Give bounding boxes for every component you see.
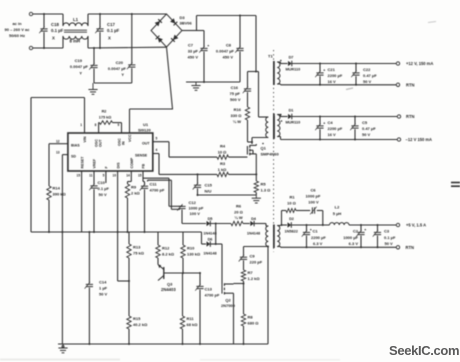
svg-text:F: F bbox=[105, 166, 109, 169]
svg-text:450 V: 450 V bbox=[188, 55, 199, 60]
svg-text:16 V: 16 V bbox=[328, 132, 337, 137]
svg-text:Y: Y bbox=[121, 72, 124, 77]
svg-text:5: 5 bbox=[103, 174, 105, 178]
svg-text:50 V: 50 V bbox=[385, 241, 394, 246]
svg-text:1000 pF: 1000 pF bbox=[189, 206, 204, 211]
svg-text:C16: C16 bbox=[231, 85, 239, 90]
svg-text:90 – 260 V ac: 90 – 260 V ac bbox=[5, 27, 31, 32]
svg-text:Q3: Q3 bbox=[167, 282, 173, 287]
svg-text:RESET: RESET bbox=[80, 156, 84, 169]
svg-text:R3: R3 bbox=[220, 161, 226, 166]
svg-text:IN: IN bbox=[121, 141, 125, 145]
svg-text:C6: C6 bbox=[310, 188, 316, 193]
svg-text:SMP4N60: SMP4N60 bbox=[261, 152, 280, 157]
svg-text:1.2 kΩ: 1.2 kΩ bbox=[248, 276, 261, 281]
svg-text:Q2: Q2 bbox=[225, 298, 231, 303]
svg-text:5: 5 bbox=[156, 137, 158, 141]
svg-text:+: + bbox=[364, 228, 366, 232]
svg-text:0.1 µF: 0.1 µF bbox=[51, 28, 64, 33]
svg-text:D1: D1 bbox=[289, 109, 294, 113]
svg-text:C9: C9 bbox=[250, 254, 256, 259]
svg-text:C22: C22 bbox=[363, 67, 371, 72]
svg-text:15: 15 bbox=[138, 174, 142, 178]
svg-text:Q1: Q1 bbox=[261, 146, 267, 151]
svg-text:0.0047 µF: 0.0047 µF bbox=[108, 66, 127, 71]
svg-text:C15: C15 bbox=[205, 183, 213, 188]
svg-text:C5: C5 bbox=[362, 120, 368, 125]
svg-text:R15: R15 bbox=[133, 316, 141, 321]
svg-text:D2: D2 bbox=[289, 217, 294, 221]
svg-text:10 Ω: 10 Ω bbox=[218, 150, 228, 155]
svg-text:11: 11 bbox=[89, 174, 93, 178]
svg-text:500 V: 500 V bbox=[230, 97, 241, 102]
svg-text:9: 9 bbox=[118, 123, 120, 127]
svg-text:4700 pF: 4700 pF bbox=[205, 293, 220, 298]
svg-text:50 V: 50 V bbox=[363, 79, 372, 84]
svg-text:20 Ω: 20 Ω bbox=[234, 210, 244, 215]
svg-text:C21: C21 bbox=[328, 67, 336, 72]
svg-text:ac in: ac in bbox=[12, 21, 22, 26]
svg-text:+: + bbox=[310, 228, 312, 232]
svg-text:1.3 Ω: 1.3 Ω bbox=[261, 188, 272, 193]
svg-text:SD: SD bbox=[71, 155, 76, 159]
svg-text:T1: T1 bbox=[268, 54, 273, 59]
svg-text:0.1 µF: 0.1 µF bbox=[384, 235, 396, 240]
svg-text:50 V: 50 V bbox=[99, 192, 108, 197]
svg-text:0.0047 µF: 0.0047 µF bbox=[70, 64, 89, 69]
svg-text:VREF: VREF bbox=[93, 158, 97, 168]
svg-text:1 kΩ: 1 kΩ bbox=[218, 167, 228, 172]
svg-text:MUR110: MUR110 bbox=[286, 68, 301, 72]
svg-text:FB: FB bbox=[142, 163, 146, 168]
svg-text:330 Ω: 330 Ω bbox=[231, 113, 243, 118]
svg-text:R6: R6 bbox=[236, 204, 242, 209]
svg-text:C17: C17 bbox=[107, 22, 115, 27]
svg-text:N/U: N/U bbox=[205, 189, 212, 194]
svg-text:R2: R2 bbox=[102, 110, 107, 114]
svg-text:4: 4 bbox=[156, 148, 158, 152]
svg-text:1 µF: 1 µF bbox=[99, 286, 108, 291]
svg-text:Y: Y bbox=[79, 71, 82, 76]
svg-text:C14: C14 bbox=[99, 280, 107, 285]
svg-text:RTN: RTN bbox=[406, 114, 414, 119]
svg-text:OUT: OUT bbox=[142, 142, 150, 146]
svg-text:D5: D5 bbox=[208, 217, 213, 221]
svg-text:RTN: RTN bbox=[406, 82, 414, 87]
svg-text:10: 10 bbox=[113, 174, 117, 178]
svg-text:1N5822: 1N5822 bbox=[285, 230, 298, 234]
svg-text:33 µF: 33 µF bbox=[188, 49, 199, 54]
svg-text:C12: C12 bbox=[189, 200, 197, 205]
svg-text:0.47 µF: 0.47 µF bbox=[363, 73, 377, 78]
svg-text:1N4148: 1N4148 bbox=[203, 252, 216, 256]
svg-text:DIS: DIS bbox=[116, 162, 120, 169]
svg-text:75 pF: 75 pF bbox=[230, 91, 241, 96]
svg-text:2200 µF: 2200 µF bbox=[311, 235, 326, 240]
svg-text:0.47 µF: 0.47 µF bbox=[362, 126, 376, 131]
svg-text:+: + bbox=[323, 121, 325, 125]
svg-text:R10: R10 bbox=[187, 246, 195, 251]
svg-text:C18: C18 bbox=[51, 22, 59, 27]
svg-text:0.0047 µF: 0.0047 µF bbox=[216, 49, 235, 54]
svg-text:+12 V, 150 mA: +12 V, 150 mA bbox=[406, 61, 433, 66]
svg-text:C4: C4 bbox=[328, 120, 334, 125]
svg-text:+5 V, 1.5 A: +5 V, 1.5 A bbox=[406, 223, 426, 228]
svg-text:MUR110: MUR110 bbox=[286, 121, 301, 125]
svg-text:C11: C11 bbox=[150, 182, 158, 187]
svg-text:R7: R7 bbox=[248, 270, 254, 275]
svg-text:C3: C3 bbox=[384, 229, 390, 234]
svg-text:C8: C8 bbox=[226, 43, 232, 48]
svg-text:4700 pF: 4700 pF bbox=[150, 188, 165, 193]
svg-text:R14: R14 bbox=[53, 186, 61, 191]
svg-text:1000 pF: 1000 pF bbox=[306, 194, 321, 199]
svg-text:2200 µF: 2200 µF bbox=[328, 73, 343, 78]
svg-text:+: + bbox=[323, 68, 325, 72]
svg-text:8: 8 bbox=[95, 123, 97, 127]
svg-text:R13: R13 bbox=[133, 245, 141, 250]
svg-text:175 kΩ: 175 kΩ bbox=[99, 115, 112, 119]
svg-text:R11: R11 bbox=[187, 316, 195, 321]
svg-text:−12 V 150 mA: −12 V 150 mA bbox=[406, 137, 433, 142]
svg-text:R16: R16 bbox=[234, 107, 242, 112]
svg-text:50 V: 50 V bbox=[362, 132, 371, 137]
svg-text:2 kΩ: 2 kΩ bbox=[131, 191, 141, 196]
svg-text:50 V: 50 V bbox=[99, 292, 108, 297]
svg-text:L1: L1 bbox=[73, 17, 79, 22]
svg-text:40.2 kΩ: 40.2 kΩ bbox=[133, 322, 148, 327]
svg-text:D4: D4 bbox=[251, 217, 257, 221]
svg-text:8 mH: 8 mH bbox=[70, 39, 81, 44]
svg-text:¼ W: ¼ W bbox=[234, 215, 242, 220]
svg-text:R4: R4 bbox=[220, 144, 226, 149]
svg-text:1000 µF: 1000 µF bbox=[343, 235, 358, 240]
svg-text:RTN: RTN bbox=[406, 245, 414, 250]
svg-text:L2: L2 bbox=[335, 205, 340, 210]
svg-text:VIN: VIN bbox=[83, 136, 87, 142]
svg-text:50/60 Hz: 50/60 Hz bbox=[9, 33, 25, 38]
svg-text:BIAS: BIAS bbox=[71, 144, 80, 148]
svg-text:16 V: 16 V bbox=[328, 79, 337, 84]
svg-text:2N4403: 2N4403 bbox=[161, 287, 176, 292]
svg-text:COMP: COMP bbox=[130, 157, 134, 168]
svg-text:R9: R9 bbox=[131, 185, 137, 190]
svg-text:13: 13 bbox=[56, 151, 60, 155]
svg-text:12: 12 bbox=[56, 140, 60, 144]
svg-text:D7: D7 bbox=[289, 56, 294, 60]
svg-text:C7: C7 bbox=[188, 43, 194, 48]
svg-text:1: 1 bbox=[80, 123, 82, 127]
svg-text:SI9120: SI9120 bbox=[138, 128, 151, 133]
svg-text:U1: U1 bbox=[143, 122, 149, 127]
svg-text:C20: C20 bbox=[116, 60, 124, 65]
svg-text:3BV06: 3BV06 bbox=[180, 21, 193, 26]
svg-text:2200 µF: 2200 µF bbox=[328, 126, 343, 131]
svg-text:R8: R8 bbox=[248, 315, 254, 320]
svg-text:14: 14 bbox=[126, 174, 130, 178]
svg-text:SENSE: SENSE bbox=[135, 154, 148, 158]
svg-text:R5: R5 bbox=[261, 182, 267, 187]
svg-text:0.1 µF: 0.1 µF bbox=[98, 186, 110, 191]
svg-text:6.3 V: 6.3 V bbox=[313, 241, 323, 246]
svg-text:+: + bbox=[207, 44, 209, 48]
svg-text:X: X bbox=[108, 36, 111, 41]
svg-text:75 kΩ: 75 kΩ bbox=[133, 251, 145, 256]
svg-text:130 kΩ: 130 kΩ bbox=[187, 252, 201, 257]
svg-text:5 µH: 5 µH bbox=[333, 211, 342, 216]
svg-text:C13: C13 bbox=[205, 287, 213, 292]
svg-text:68 kΩ: 68 kΩ bbox=[187, 322, 199, 327]
svg-text:10 Ω: 10 Ω bbox=[287, 201, 297, 206]
svg-text:6.3 V: 6.3 V bbox=[349, 241, 359, 246]
svg-text:15: 15 bbox=[77, 174, 81, 178]
svg-text:R12: R12 bbox=[162, 246, 170, 251]
svg-text:D3: D3 bbox=[180, 15, 186, 20]
svg-text:220 pF: 220 pF bbox=[250, 260, 263, 265]
svg-text:C2: C2 bbox=[353, 229, 359, 234]
svg-text:1N4148: 1N4148 bbox=[247, 232, 260, 236]
svg-text:D6: D6 bbox=[208, 238, 213, 242]
svg-text:X: X bbox=[52, 36, 55, 41]
svg-text:8.2 kΩ: 8.2 kΩ bbox=[162, 252, 175, 257]
svg-text:450 V: 450 V bbox=[223, 55, 234, 60]
svg-text:680 Ω: 680 Ω bbox=[248, 321, 260, 326]
svg-text:100 V: 100 V bbox=[308, 200, 319, 205]
svg-text:R1: R1 bbox=[289, 195, 295, 200]
svg-text:390 kΩ: 390 kΩ bbox=[53, 192, 67, 197]
svg-text:OUT: OUT bbox=[99, 139, 103, 147]
svg-text:¼ W: ¼ W bbox=[233, 119, 241, 124]
svg-text:VCC: VCC bbox=[128, 134, 132, 142]
svg-text:C10: C10 bbox=[98, 180, 106, 185]
svg-text:0.1 µF: 0.1 µF bbox=[107, 28, 120, 33]
svg-text:100 V: 100 V bbox=[190, 211, 201, 216]
svg-text:C1: C1 bbox=[313, 229, 319, 234]
svg-text:1N4148: 1N4148 bbox=[203, 232, 216, 236]
svg-text:C19: C19 bbox=[75, 58, 83, 63]
